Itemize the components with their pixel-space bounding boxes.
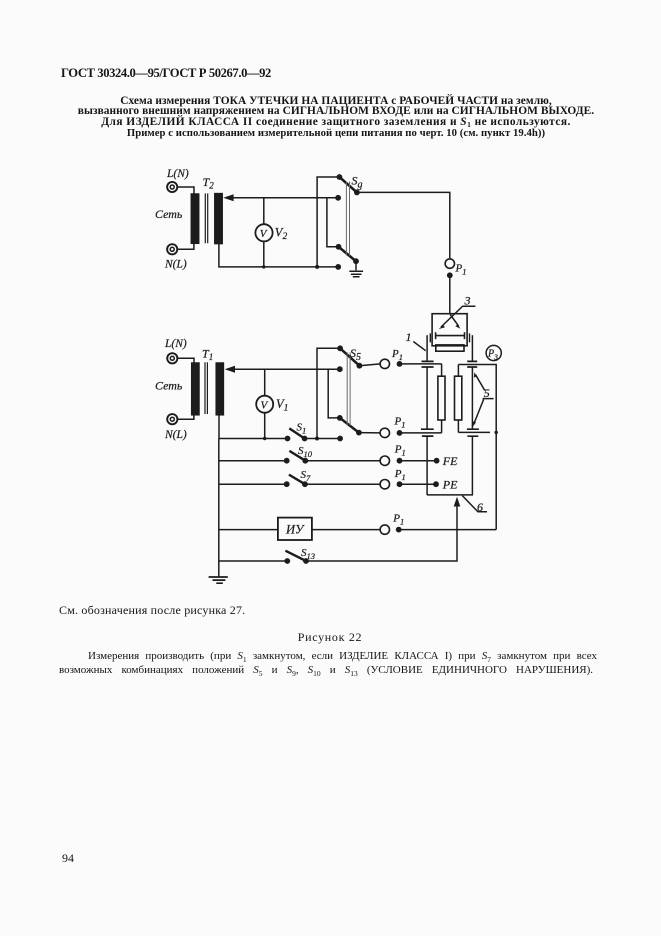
svg-text:P3: P3 <box>487 349 498 362</box>
wire Sg lower pole to ground <box>355 261 357 270</box>
switch S5 contact dot 4 <box>337 436 343 442</box>
probe terminal P3 <box>486 345 501 361</box>
transformer T1 secondary winding <box>216 363 223 415</box>
wire S5 upper output to P1 row1 <box>359 364 380 366</box>
main earth rail <box>218 439 220 578</box>
switch S7 pivot dot <box>302 481 308 487</box>
resistor R (patient circuit, right of 5) <box>455 376 462 420</box>
svg-text:Сеть: Сеть <box>155 207 183 221</box>
wire T2 secondary top to Sg contact (with arrow into winding) <box>223 194 338 201</box>
label Сеть (mains) top <box>155 207 183 221</box>
label N(L) bottom <box>164 429 187 441</box>
node FE <box>434 454 458 468</box>
label L(N) top <box>166 168 189 180</box>
svg-text:ИУ: ИУ <box>285 523 305 537</box>
switch Sg contact dot 2 <box>335 195 341 201</box>
transformer T1 core <box>205 362 207 414</box>
capacitance top-left (stray) <box>422 361 434 367</box>
wire measuring device row left <box>219 529 278 531</box>
svg-text:V: V <box>260 228 268 240</box>
svg-text:Сеть: Сеть <box>155 379 183 393</box>
switch S13 blade <box>285 551 306 561</box>
wire T1 secondary top to S5 contact (with arrow into winding) <box>225 366 340 373</box>
label V2 <box>275 226 288 243</box>
wire S7 row left <box>219 483 287 485</box>
junction V1 bottom <box>263 437 266 440</box>
connector 1 body <box>436 345 464 351</box>
capacitance bottom-left (stray) <box>421 429 434 436</box>
wire T1 secondary bottom to rail <box>218 415 220 439</box>
label 5 with two arrows <box>473 372 494 426</box>
wire S13 row left <box>219 560 287 562</box>
switch S5 mechanical link <box>347 352 350 425</box>
probe P1 row3 <box>380 456 402 465</box>
wire L(N) to T2 primary <box>178 187 195 194</box>
probe P1 row5 <box>380 525 402 534</box>
switch S10 contact left <box>284 458 290 464</box>
svg-text:P1: P1 <box>391 348 403 362</box>
switch S5 inner rail wire <box>328 369 340 418</box>
svg-text:V2: V2 <box>275 226 288 243</box>
label V1 <box>276 397 288 414</box>
wire V2 branch vertical <box>263 198 265 267</box>
svg-text:P1: P1 <box>394 416 406 430</box>
terminal N(L) of T2 <box>167 244 177 254</box>
switch Sg lower pole output dot <box>353 258 359 264</box>
label N(L) top <box>164 259 187 271</box>
svg-text:S13: S13 <box>301 547 315 561</box>
label P1 row3 <box>394 444 406 458</box>
label S7 <box>301 469 312 483</box>
capacitance top-right (stray) <box>467 361 477 367</box>
junction Sg left rail bottom <box>315 265 319 269</box>
wire row4 to PE terminal <box>400 483 437 485</box>
switch S10 pivot dot <box>302 458 308 464</box>
switch Sg contact dot 1 <box>337 174 343 180</box>
switch S5 contact dot 1 <box>337 345 343 351</box>
switch Sg contact dot 3 <box>336 244 342 250</box>
label S1 <box>297 422 307 436</box>
wire S1 row <box>219 438 340 440</box>
label P1 row1 <box>391 348 403 362</box>
svg-text:P1: P1 <box>392 513 404 527</box>
probe P1 row2 <box>380 428 402 437</box>
svg-text:S1: S1 <box>297 422 307 436</box>
label 3 with leader <box>439 294 476 330</box>
wire row1 to left resistor <box>400 363 442 365</box>
label S13 <box>301 547 315 561</box>
label Сеть (mains) bottom <box>155 379 183 393</box>
switch Sg left rail wire <box>317 177 339 267</box>
probe application box 3 <box>432 314 467 346</box>
wire ИУ to P1 row5 <box>312 529 380 531</box>
label S10 <box>298 445 313 459</box>
label P1 row4 <box>394 468 406 482</box>
wire right resistor bottom lead <box>457 420 459 432</box>
wire P1 down to probe box 3 <box>449 278 451 314</box>
svg-text:L(N): L(N) <box>164 338 187 350</box>
svg-text:PE: PE <box>442 478 458 492</box>
svg-text:N(L): N(L) <box>164 429 187 441</box>
wire S10 to P1 row3 <box>305 460 380 462</box>
wire DUT right wall lower <box>471 437 473 495</box>
svg-text:V: V <box>261 399 269 411</box>
wire row3 to FE terminal <box>400 460 437 462</box>
label S5 <box>350 346 361 363</box>
switch S5 contact dot 2 <box>337 366 343 372</box>
label T1 <box>202 347 213 363</box>
switch Sg contact dot 4 <box>335 264 341 270</box>
transformer T1 primary winding <box>192 363 199 415</box>
enclosure 6 bottom wall <box>427 494 473 496</box>
switch S5 contact dot 3 <box>337 415 343 421</box>
label P1 row2 <box>394 416 406 430</box>
switch S5 lower blade <box>340 418 359 433</box>
switch S13 pivot dot <box>303 558 309 564</box>
switch S1 contact left <box>285 436 291 442</box>
switch S5 upper pole output dot <box>357 363 363 369</box>
switch S7 blade <box>289 475 305 485</box>
switch S5 lower pole output dot <box>356 430 362 436</box>
svg-text:P1: P1 <box>394 444 406 458</box>
wire right measuring branch to 5 <box>458 365 496 530</box>
transformer T2 primary winding <box>191 194 198 243</box>
voltmeter V1 <box>256 396 273 413</box>
capacitance bottom-right (stray) <box>467 429 479 436</box>
transformer T2 core <box>205 193 207 243</box>
ground below Sg <box>349 271 363 276</box>
switch Sg mechanical link <box>346 182 349 256</box>
wire connector right lead <box>471 335 473 361</box>
svg-text:S7: S7 <box>301 469 312 483</box>
junction V2 bottom <box>262 265 265 268</box>
wire DUT right wall upper <box>471 367 473 428</box>
switch S7 contact left <box>284 481 290 487</box>
svg-text:T2: T2 <box>203 175 215 191</box>
junction S5 rail on S1 row <box>315 437 319 441</box>
switch Sg upper pole output dot <box>354 190 360 196</box>
switch S13 contact left <box>284 558 290 564</box>
wire connector left lead <box>426 335 428 361</box>
label 1 with leader <box>406 330 426 351</box>
svg-text:T1: T1 <box>202 347 213 363</box>
switch S5 left rail wire <box>317 348 340 438</box>
resistor R (patient circuit, left of 5) <box>438 376 445 420</box>
wire V1 branch vertical <box>264 369 266 438</box>
measuring device ИУ <box>278 518 312 540</box>
voltmeter V2 <box>255 224 272 241</box>
wire S10 row left <box>219 460 287 462</box>
svg-text:L(N): L(N) <box>166 168 189 180</box>
node PE <box>433 478 458 492</box>
wire left resistor bottom lead <box>441 420 443 433</box>
wire S7 to P1 row4 <box>305 483 380 485</box>
probe P1 row1 <box>380 359 402 368</box>
wire right resistor bottom stub <box>458 431 498 434</box>
svg-text:3: 3 <box>464 294 471 308</box>
wire row5 to measuring branch <box>399 529 497 531</box>
switch S1 blade <box>289 428 304 438</box>
connector 1 side contacts <box>430 333 469 342</box>
ground main (bottom left) <box>209 577 228 583</box>
wire S5 lower output to P1 row2 <box>359 432 380 434</box>
svg-text:P1: P1 <box>455 263 467 277</box>
switch Sg lower blade <box>339 247 357 261</box>
svg-text:S10: S10 <box>298 445 313 459</box>
switch S1 pivot dot <box>302 436 308 442</box>
label L(N) bottom <box>164 338 187 350</box>
label P1 row5 <box>392 513 404 527</box>
wire right resistor top lead <box>457 365 459 377</box>
wire S13 to enclosure with arrow <box>306 497 460 561</box>
svg-text:P1: P1 <box>394 468 406 482</box>
wire L(N) to T1 primary <box>178 358 194 363</box>
switch S5 upper blade <box>340 348 359 365</box>
svg-text:V1: V1 <box>276 397 288 414</box>
terminal L(N) of T2 <box>167 182 177 192</box>
wire Sg output to probe P1 <box>357 192 450 258</box>
connector 1 contact bar with end pins <box>436 332 465 339</box>
switch S10 blade <box>289 451 305 461</box>
svg-text:N(L): N(L) <box>164 259 187 271</box>
wire left resistor top lead <box>441 364 443 376</box>
label Sg <box>352 174 363 191</box>
switch Sg inner rail wire <box>327 198 339 247</box>
terminal L(N) of T1 <box>167 353 177 363</box>
wire T2 secondary bottom rail <box>219 244 338 267</box>
label P1 top <box>455 263 467 277</box>
probe arrow to right pin <box>450 315 460 329</box>
svg-text:FE: FE <box>442 454 458 468</box>
transformer T2 secondary winding <box>215 194 222 244</box>
wire row2 to left resistor bottom <box>400 432 442 434</box>
terminal N(L) of T1 <box>167 414 177 424</box>
svg-text:1: 1 <box>406 330 412 344</box>
wire DUT left wall lower <box>426 437 428 495</box>
probe P1 row4 <box>380 480 402 489</box>
switch Sg upper blade <box>339 177 357 192</box>
label T2 <box>203 175 215 191</box>
wire DUT left wall upper <box>426 367 428 428</box>
wire N(L) to T2 primary <box>178 243 194 249</box>
wire N(L) to T1 primary <box>178 415 194 419</box>
probe P1 (top, to signal part) <box>445 259 454 278</box>
label 6 with leader <box>462 496 487 514</box>
